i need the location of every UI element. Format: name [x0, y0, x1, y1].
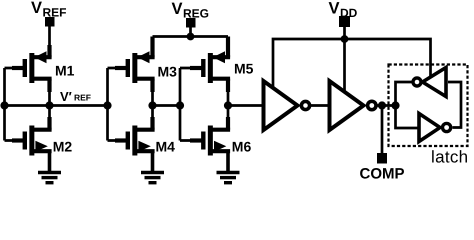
wire M5 source up	[226, 37, 230, 58]
svg-text:M1: M1	[55, 63, 75, 79]
transistor M2	[23, 126, 52, 156]
wire VREG stub	[189, 27, 192, 37]
svg-text:M6: M6	[232, 139, 252, 155]
svg-text:M2: M2	[53, 138, 73, 154]
inverter U2	[330, 81, 376, 130]
junction dot latch node	[391, 101, 399, 109]
ground under M6	[217, 173, 240, 183]
ground under M2	[38, 173, 61, 183]
VDD supply terminal square	[339, 16, 350, 27]
wire M6 drain up to node	[226, 117, 230, 130]
svg-text:V: V	[31, 0, 42, 17]
wire M6 gate lead	[180, 139, 203, 142]
latch dashed box	[389, 65, 468, 147]
wire M5 drain down	[226, 79, 230, 92]
wire M3 drain down	[150, 79, 154, 92]
wire latch left loop	[396, 82, 419, 128]
transistor M1	[23, 51, 52, 83]
svg-text:REG: REG	[183, 6, 209, 20]
wire VDD rail	[273, 39, 431, 89]
wire M4 source down	[151, 151, 155, 171]
svg-text:REF: REF	[74, 93, 91, 103]
inverter U4 (latch bottom, points right)	[419, 114, 451, 142]
wire VREG rail	[153, 35, 229, 38]
junction dot gate rail 1	[103, 101, 111, 109]
inverter U3 (latch top, points left)	[413, 68, 446, 97]
svg-text:M3: M3	[158, 63, 178, 79]
transistor M4	[126, 126, 155, 156]
wire M2 source down	[48, 151, 52, 171]
transistor M6	[201, 126, 230, 156]
svg-text:V: V	[329, 0, 340, 18]
junction dot gate rail 2	[176, 101, 184, 109]
wire left gate rail	[3, 68, 6, 141]
junction dot COMP tap	[378, 101, 386, 109]
transistor M3	[126, 51, 155, 83]
wire M2 drain up to node	[47, 117, 51, 130]
svg-text:latch: latch	[431, 148, 468, 167]
junction dot left rail	[0, 101, 8, 109]
junction dot VREG	[187, 33, 195, 41]
node V'REF bus wire	[5, 104, 108, 107]
svg-text:M4: M4	[156, 138, 176, 154]
junction dot M5/M6 drains	[224, 101, 232, 109]
wire VDD drop to inverter U2	[343, 39, 346, 92]
wire U2 output to latch	[376, 104, 396, 107]
wire VDD stub	[343, 26, 346, 39]
wire M5 gate lead	[180, 67, 203, 70]
wire M3 source up	[150, 37, 154, 58]
svg-text:DD: DD	[340, 6, 358, 20]
wire M1 gate lead	[5, 67, 25, 70]
svg-text:REF: REF	[43, 5, 67, 19]
junction dot VDD	[341, 35, 349, 43]
wire M4 gate lead	[108, 139, 128, 142]
wire U1 out to U2 in	[310, 104, 331, 107]
wire gate rail M3/M4	[106, 68, 109, 141]
VREG supply terminal square	[186, 18, 196, 28]
wire drain node M3/M4 to gate rail M5/M6	[153, 104, 181, 107]
ground under M4	[141, 173, 164, 183]
wire COMP tap down	[381, 106, 384, 154]
junction dot V'REF	[45, 101, 53, 109]
inverter U1	[264, 81, 310, 130]
wire output node to inverter U1 input	[228, 104, 263, 107]
junction dot M3/M4 drains	[148, 101, 156, 109]
svg-text:M5: M5	[234, 61, 254, 77]
wire gate rail M5/M6	[179, 68, 182, 141]
transistor M5	[201, 51, 230, 83]
wire M1 drain down to node	[47, 79, 51, 92]
svg-text:V′: V′	[60, 89, 72, 104]
wire M2 gate lead	[5, 139, 25, 142]
svg-text:V: V	[172, 0, 183, 18]
wire VREF to M1 source	[48, 26, 51, 50]
wire M6 source down	[226, 151, 230, 171]
svg-text:COMP: COMP	[360, 166, 405, 183]
COMP terminal square	[377, 153, 387, 164]
wire M3 gate lead	[108, 67, 128, 70]
wire latch right loop	[448, 82, 461, 128]
VREF supply terminal square	[45, 17, 55, 27]
wire M4 drain up to node	[150, 117, 154, 130]
